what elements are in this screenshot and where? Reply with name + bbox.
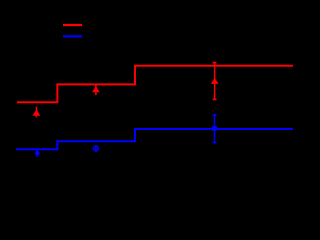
blue errorbar 1 xyxy=(36,149,38,157)
blue marker 1 (open circle) xyxy=(35,151,40,156)
blue marker 2 (open circle) xyxy=(93,146,98,151)
blue errorbar 3 bottom cap xyxy=(213,142,217,144)
legend blue line xyxy=(63,35,82,37)
blue marker 3 (open circle) xyxy=(212,125,218,131)
red errorbar 3 xyxy=(214,63,216,100)
legend red line xyxy=(63,24,82,26)
red errorbar 3 top cap xyxy=(213,62,217,64)
red errorbar 2 xyxy=(95,84,97,95)
red marker 1 (triangle) xyxy=(33,109,41,115)
red errorbar 3 bottom cap xyxy=(213,98,217,100)
red marker 3 (triangle) xyxy=(211,78,219,84)
red step line xyxy=(17,66,293,103)
blue errorbar 3 top cap xyxy=(213,114,217,116)
red marker 2 (triangle) xyxy=(92,86,100,92)
blue errorbar 2 xyxy=(95,145,97,152)
blue errorbar 3 xyxy=(214,114,216,143)
red errorbar 1 xyxy=(35,107,37,118)
blue step line xyxy=(16,129,293,149)
